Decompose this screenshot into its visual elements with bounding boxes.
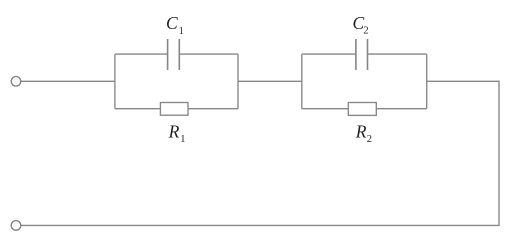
capacitor C2 plates xyxy=(356,39,368,70)
resistor R1 body xyxy=(160,103,188,116)
svg-text:1: 1 xyxy=(179,26,184,37)
wire from block 2 to right corner xyxy=(427,80,499,82)
svg-text:1: 1 xyxy=(180,134,185,145)
label C1 xyxy=(166,13,184,37)
terminal T1 (upper left input) xyxy=(11,77,21,87)
label R1 xyxy=(168,122,186,145)
node loop2 (parallel block 2 outline) xyxy=(302,54,427,109)
node loop1 (parallel block 1 outline) xyxy=(115,54,238,109)
resistor R2 body xyxy=(348,103,376,116)
wire right vertical return xyxy=(498,81,500,226)
svg-text:R: R xyxy=(168,122,180,142)
svg-text:2: 2 xyxy=(367,134,372,145)
wire bottom return to T2 xyxy=(21,224,500,226)
capacitor C1 plates xyxy=(168,39,180,70)
label R2 xyxy=(355,122,372,145)
wire between block 1 and block 2 xyxy=(238,80,302,82)
svg-text:2: 2 xyxy=(363,26,368,37)
wire from T1 to block 1 xyxy=(21,80,115,82)
svg-text:C: C xyxy=(166,13,178,33)
svg-text:R: R xyxy=(355,122,367,142)
terminal T2 (lower left input) xyxy=(11,221,21,231)
label C2 xyxy=(353,13,369,37)
